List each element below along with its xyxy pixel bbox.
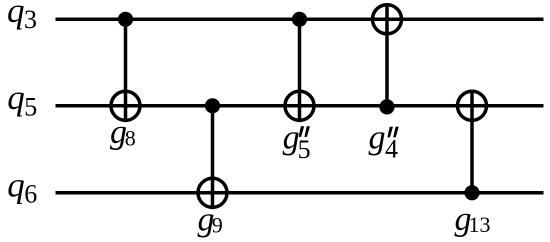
svg-text:6: 6 bbox=[24, 180, 37, 209]
gate g9 target on q6 bbox=[198, 178, 227, 207]
label g8 bbox=[110, 114, 136, 151]
label g9 bbox=[198, 202, 223, 239]
svg-text:g: g bbox=[369, 120, 386, 157]
gate g13 control dot on q6 bbox=[464, 185, 479, 200]
wire q5 bbox=[56, 104, 544, 108]
svg-text:q: q bbox=[7, 78, 25, 117]
svg-text:8: 8 bbox=[125, 126, 136, 151]
svg-text:5: 5 bbox=[24, 92, 37, 121]
gate g8 target on q5 bbox=[111, 91, 140, 120]
svg-text:9: 9 bbox=[212, 213, 223, 238]
gate g5'' control dot on q3 bbox=[292, 12, 307, 27]
wire q6 bbox=[56, 191, 544, 195]
label g4'' bbox=[369, 120, 399, 164]
qubit label q3 bbox=[7, 0, 37, 34]
gate g13 wire (vertical) bbox=[470, 90, 474, 193]
label g5'' bbox=[283, 120, 311, 165]
gate g9 wire (vertical) bbox=[211, 106, 215, 209]
gate g8 control dot on q3 bbox=[118, 12, 133, 27]
gate g4'' target on q3 bbox=[373, 5, 402, 34]
qubit label q5 bbox=[7, 78, 37, 121]
gate g5'' target on q5 bbox=[285, 91, 314, 120]
svg-text:q: q bbox=[7, 0, 25, 30]
gate g5'' wire (vertical) bbox=[298, 19, 302, 122]
svg-text:q: q bbox=[7, 165, 25, 204]
gate g4'' control dot on q5 bbox=[379, 99, 394, 114]
svg-text:13: 13 bbox=[469, 212, 491, 237]
gate g4'' wire (vertical) bbox=[385, 3, 389, 107]
label g13 bbox=[455, 201, 491, 238]
gate g13 target on q5 bbox=[458, 91, 487, 120]
gate g8 wire (vertical) bbox=[124, 19, 128, 122]
svg-text:3: 3 bbox=[24, 5, 37, 34]
gate g9 control dot on q5 bbox=[205, 98, 220, 113]
svg-text:4: 4 bbox=[385, 135, 398, 164]
wire q3 bbox=[56, 18, 544, 22]
svg-text:5: 5 bbox=[298, 135, 311, 164]
qubit label q6 bbox=[7, 165, 37, 208]
